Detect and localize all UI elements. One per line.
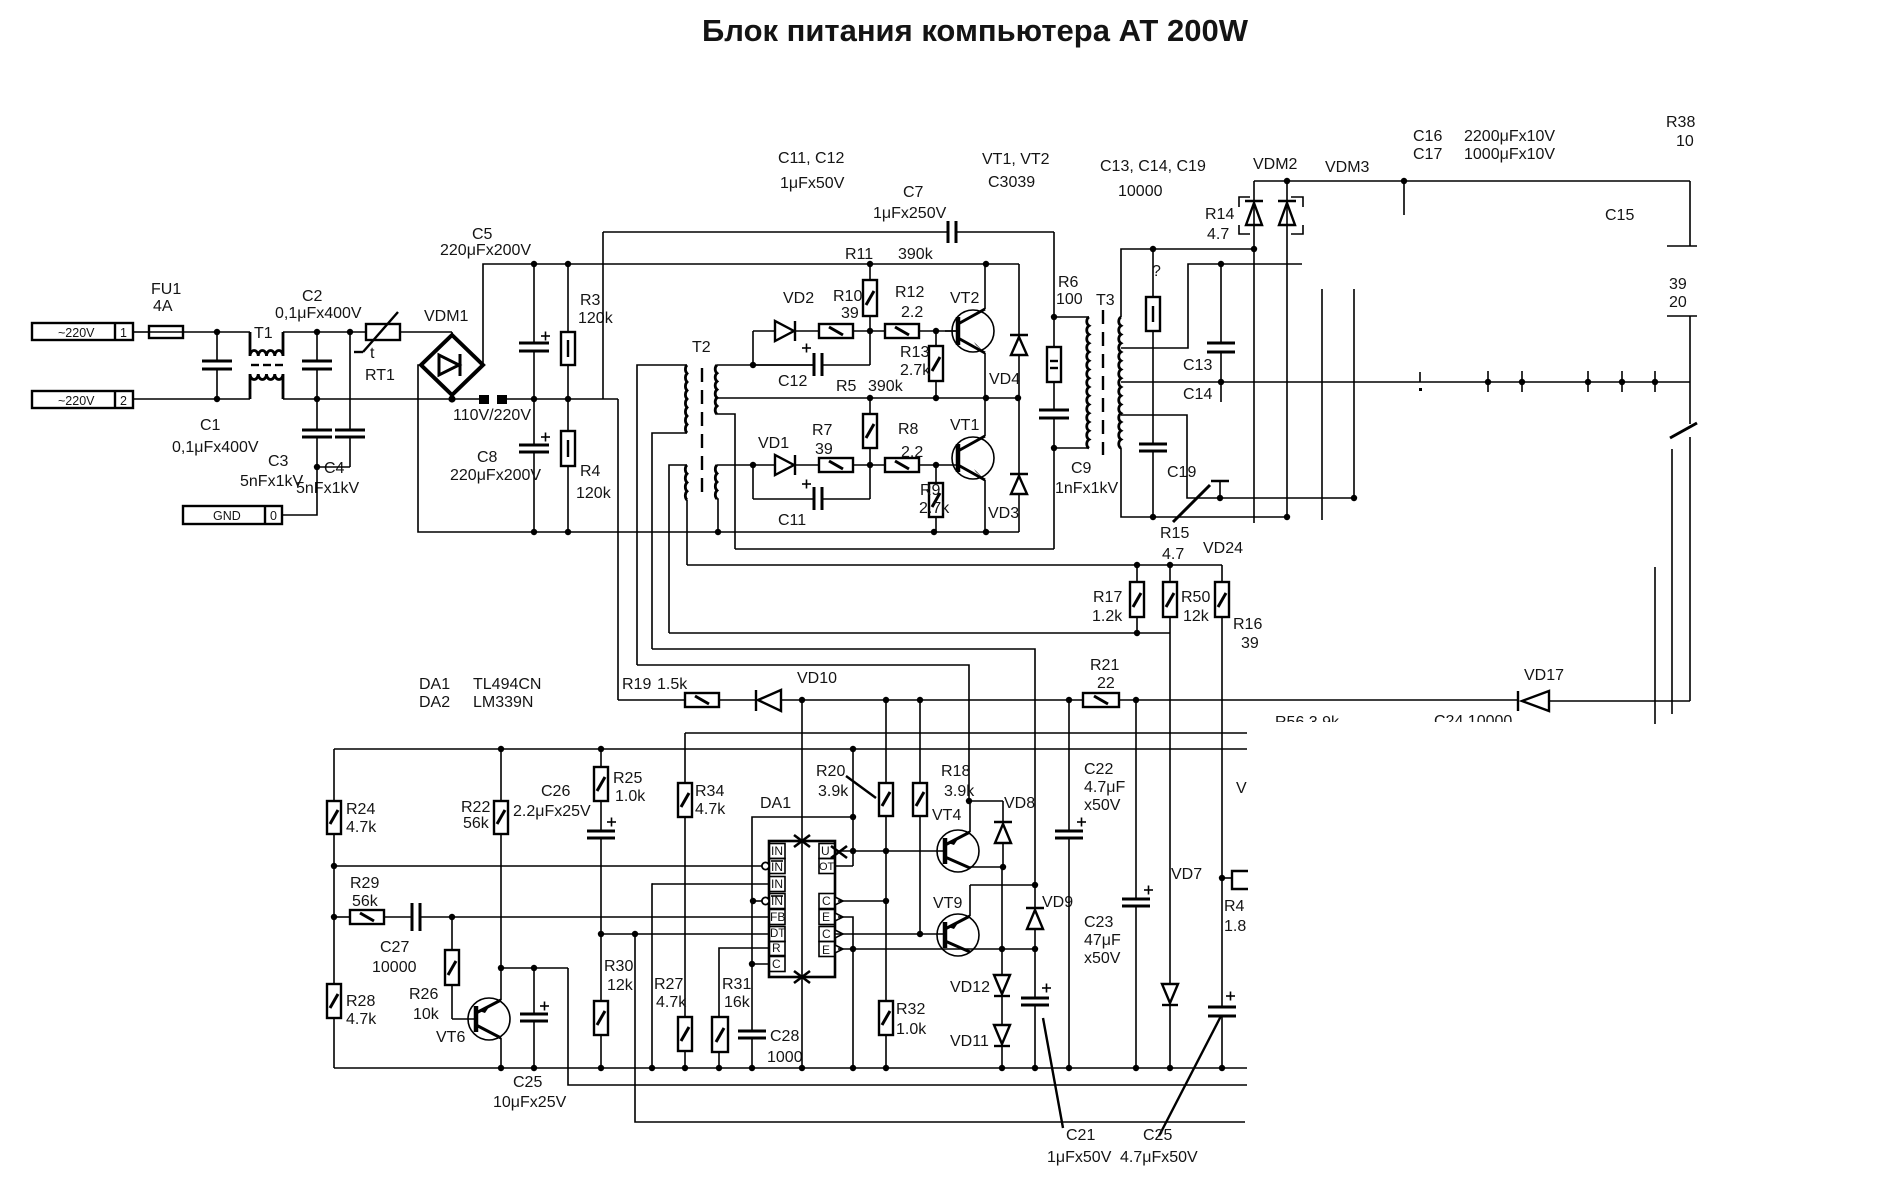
svg-text:1.5k: 1.5k <box>657 676 688 693</box>
wire T2 right g2 top to VD1 <box>717 464 775 466</box>
svg-text:C12: C12 <box>778 373 807 390</box>
svg-text:VDM3: VDM3 <box>1325 159 1370 176</box>
svg-text:IN: IN <box>771 877 783 891</box>
diode VD9 <box>1026 885 1073 949</box>
svg-text:16k: 16k <box>724 994 751 1011</box>
FB line with R29 C27 <box>334 916 350 918</box>
svg-text:R3: R3 <box>580 292 601 309</box>
svg-text:R5: R5 <box>836 378 857 395</box>
svg-text:R26: R26 <box>409 986 438 1003</box>
svg-text:VD12: VD12 <box>950 979 990 996</box>
capacitor C7 <box>873 184 1054 243</box>
svg-text:4.7k: 4.7k <box>656 994 687 1011</box>
svg-text:R6: R6 <box>1058 274 1079 291</box>
svg-text:C2: C2 <box>302 288 323 305</box>
svg-text:0,1μFx400V: 0,1μFx400V <box>172 439 259 456</box>
node C4 top <box>347 329 353 335</box>
resistor R3 <box>561 264 614 399</box>
capacitor C21 <box>1021 949 1051 1068</box>
svg-text:VT1: VT1 <box>950 417 979 434</box>
diode VD17 <box>1518 667 1564 711</box>
svg-text:1.8: 1.8 <box>1224 918 1246 935</box>
svg-text:C22: C22 <box>1084 761 1113 778</box>
svg-text:5nFx1kV: 5nFx1kV <box>240 473 303 490</box>
svg-text:C23: C23 <box>1084 914 1113 931</box>
DA1 right pin cells <box>819 844 835 957</box>
110V/220V selector contacts <box>453 395 531 424</box>
svg-text:2.7k: 2.7k <box>900 362 931 379</box>
resistor R4 <box>561 399 612 532</box>
node C2 bottom <box>314 396 320 402</box>
svg-text:C9: C9 <box>1071 460 1092 477</box>
resistor R8 <box>885 421 957 472</box>
svg-text:VDM2: VDM2 <box>1253 156 1298 173</box>
transformer T2 left winding group2 <box>685 465 687 500</box>
svg-text:R31: R31 <box>722 976 751 993</box>
R pin line <box>719 948 769 1017</box>
node C8 bottom on rail <box>531 529 537 535</box>
svg-text:VT9: VT9 <box>933 895 962 912</box>
svg-text:1: 1 <box>120 326 127 340</box>
resistor R11 <box>845 246 934 331</box>
transistor VT2 <box>945 264 994 398</box>
svg-text:1000: 1000 <box>767 1049 803 1066</box>
wire T2 left g2 bottom down to y565 line <box>686 500 688 565</box>
IC DA1 TL494 body <box>760 795 835 977</box>
resistor R26 <box>409 917 459 1023</box>
transformer T3 core <box>1102 310 1104 455</box>
svg-text:4.7: 4.7 <box>1207 226 1229 243</box>
svg-text:39: 39 <box>1669 276 1687 293</box>
svg-text:C21: C21 <box>1066 1127 1095 1144</box>
svg-text:T3: T3 <box>1096 292 1115 309</box>
svg-text:47μF: 47μF <box>1084 932 1121 949</box>
transformer T2 right winding group1 <box>715 365 717 414</box>
corner to 1085 line <box>568 968 1247 1085</box>
node R4 bottom on rail <box>565 529 571 535</box>
wire C3-C4 bottom join <box>317 466 350 468</box>
diode VD4 <box>989 264 1028 398</box>
svg-text:C19: C19 <box>1167 464 1196 481</box>
DT line left <box>601 933 769 935</box>
Uref line y749 <box>334 748 1247 750</box>
svg-text:OT: OT <box>819 861 835 873</box>
diode VD7 <box>1162 633 1202 1068</box>
resistor R24 <box>327 749 377 984</box>
svg-text:R7: R7 <box>812 422 833 439</box>
diode assembly VDM2 left diode <box>1245 181 1263 523</box>
svg-text:C8: C8 <box>477 449 498 466</box>
node C2 top <box>314 329 320 335</box>
resistor R18 <box>913 700 975 934</box>
E2 row / VT9 emitter line <box>838 948 1035 950</box>
svg-text:R29: R29 <box>350 875 379 892</box>
svg-text:VT6: VT6 <box>436 1029 465 1046</box>
svg-text:3.9k: 3.9k <box>818 783 849 800</box>
svg-text:10μFx25V: 10μFx25V <box>493 1094 567 1111</box>
resistor R5 <box>863 398 877 465</box>
svg-text:39: 39 <box>841 305 859 322</box>
svg-text:2.2: 2.2 <box>901 304 923 321</box>
svg-text:R15: R15 <box>1160 525 1189 542</box>
wire from pin1 to fuse <box>133 331 149 333</box>
DA1 emitter/collector pin arrows <box>835 897 843 953</box>
wire VD2 anode riser <box>752 331 754 365</box>
resistor R34 <box>678 733 726 1017</box>
svg-text:C5: C5 <box>472 226 493 243</box>
svg-text:390k: 390k <box>898 246 934 263</box>
output top rail y181 <box>1254 180 1690 182</box>
capacitor C22 <box>1055 700 1125 1068</box>
capacitor C27 <box>372 903 769 976</box>
DA1 x-marks <box>794 835 847 983</box>
svg-text:10: 10 <box>1676 133 1694 150</box>
svg-text:R34: R34 <box>695 783 724 800</box>
thermistor RT1 <box>354 312 400 384</box>
svg-text:1.0k: 1.0k <box>615 788 646 805</box>
resistor R10 <box>819 288 885 338</box>
svg-text:IN: IN <box>771 860 783 874</box>
svg-text:120k: 120k <box>576 485 612 502</box>
capacitor C2 <box>275 288 362 399</box>
x853 upper vertical <box>852 749 854 866</box>
IN2 line <box>334 865 762 867</box>
R20 column <box>816 700 893 1001</box>
svg-text:VD3: VD3 <box>988 505 1019 522</box>
tick marks on center line <box>1420 371 1655 392</box>
wire T3 secondary bottom to 517-line <box>1121 448 1287 517</box>
capacitor C19 <box>1139 444 1196 517</box>
capacitor C12 electrolytic <box>753 331 870 390</box>
svg-text:22: 22 <box>1097 675 1115 692</box>
IN3 riser x652 <box>652 884 653 1068</box>
svg-text:110V/220V: 110V/220V <box>453 407 531 424</box>
svg-text:VT1, VT2: VT1, VT2 <box>982 151 1050 168</box>
node at C1 bottom <box>214 396 220 402</box>
DT row right / VT9 base <box>835 933 944 935</box>
IN3 line <box>652 883 769 885</box>
diode VD1 <box>758 435 819 475</box>
svg-text:t: t <box>370 345 375 362</box>
wire RT1 to VDM1 <box>400 331 452 333</box>
wire T2 primary top to x636 <box>637 365 687 665</box>
wire x618 from mid rail down <box>617 399 619 700</box>
C21 pointer and label <box>1043 1018 1063 1128</box>
svg-text:R10: R10 <box>833 288 862 305</box>
svg-text:x50V: x50V <box>1084 950 1121 967</box>
node C5 bottom / C8 top <box>531 396 537 402</box>
svg-text:10000: 10000 <box>1118 183 1163 200</box>
resistor R30 <box>594 958 634 1068</box>
capacitor C3 <box>240 399 332 490</box>
svg-text:2.2: 2.2 <box>901 444 923 461</box>
node at C1 top <box>214 329 220 335</box>
capacitor C25 4.7uF cut <box>1208 992 1236 1069</box>
svg-text:C25: C25 <box>1143 1127 1172 1144</box>
bottom right cut verticals <box>1654 567 1656 724</box>
wire T1 to RT1 top line <box>283 331 366 333</box>
svg-text:VD7: VD7 <box>1171 866 1202 883</box>
resistor R25 <box>594 749 646 831</box>
main control line y700 with R19 VD10 R21 VD17 <box>618 699 685 701</box>
resistor R29 <box>350 875 384 924</box>
C pin wire first <box>838 900 886 902</box>
mid rail y398 right section <box>717 397 1019 399</box>
svg-text:C: C <box>822 927 831 941</box>
svg-text:?: ? <box>1152 263 1161 280</box>
svg-text:C11: C11 <box>778 512 806 529</box>
svg-text:~220V: ~220V <box>58 394 95 408</box>
fuse FU1 <box>149 281 183 338</box>
svg-text:120k: 120k <box>578 310 614 327</box>
svg-text:C28: C28 <box>770 1028 799 1045</box>
svg-text:V: V <box>1236 780 1247 797</box>
wire T2 left g2 top to x669 <box>669 465 687 633</box>
resistor R7 <box>812 422 885 472</box>
svg-text:R18: R18 <box>941 763 970 780</box>
node R3 top <box>565 261 571 267</box>
wire selector to C5/C8 node <box>503 398 618 400</box>
wire VDM1 left vertex down to bottom rail <box>418 365 1019 532</box>
capacitor C9 <box>1039 382 1118 549</box>
resistor R19 <box>622 676 719 707</box>
capacitor C1 <box>172 332 259 456</box>
center output line <box>1121 381 1690 383</box>
svg-text:VD8: VD8 <box>1004 795 1035 812</box>
svg-text:U: U <box>821 844 830 858</box>
resistor R14 <box>1146 206 1234 444</box>
svg-text:R30: R30 <box>604 958 633 975</box>
svg-text:C: C <box>772 957 781 971</box>
svg-text:VD10: VD10 <box>797 670 837 687</box>
svg-text:C26: C26 <box>541 783 570 800</box>
right edge column R39 <box>1667 181 1697 701</box>
connector X1 ~220V pin1 <box>32 323 133 340</box>
svg-text:R20: R20 <box>816 763 845 780</box>
IN4 stub <box>753 900 762 902</box>
resistor R16 <box>1215 565 1262 1007</box>
svg-text:R25: R25 <box>613 770 642 787</box>
svg-text:R19: R19 <box>622 676 651 693</box>
wire T3 tap1 to 264-line <box>1121 264 1302 348</box>
ground rail y1068 <box>334 1067 1247 1069</box>
transformer T2 right winding group2 <box>715 465 717 499</box>
svg-text:2.7k: 2.7k <box>919 500 950 517</box>
node R3 bottom / R4 top <box>565 396 571 402</box>
svg-text:C25: C25 <box>513 1074 542 1091</box>
svg-text:LM339N: LM339N <box>473 694 533 711</box>
wire T2 right g1 bottom step to y549 <box>717 414 735 549</box>
svg-text:100: 100 <box>1056 291 1083 308</box>
svg-text:1μFx250V: 1μFx250V <box>873 205 947 222</box>
svg-text:1000μFx10V: 1000μFx10V <box>1464 146 1555 163</box>
resistor R17 <box>1092 565 1144 633</box>
diode VD8 <box>994 795 1035 867</box>
svg-text:R28: R28 <box>346 993 375 1010</box>
svg-text:2.2μFx25V: 2.2μFx25V <box>513 803 591 820</box>
resistor R9 <box>919 465 950 532</box>
OT pin wire <box>835 865 853 867</box>
svg-text:0: 0 <box>270 509 277 523</box>
capacitor C5 electrolytic <box>440 226 550 399</box>
capacitor C13 <box>1183 264 1235 382</box>
svg-text:R50: R50 <box>1181 589 1210 606</box>
svg-text:12k: 12k <box>607 977 634 994</box>
VT9 collector row to VD9 <box>970 884 1035 886</box>
svg-text:VT4: VT4 <box>932 807 961 824</box>
svg-text:C7: C7 <box>903 184 924 201</box>
DT riser x635 to 1122 line <box>635 934 1245 1122</box>
svg-text:C27: C27 <box>380 939 409 956</box>
svg-text:R24: R24 <box>346 801 375 818</box>
svg-text:1μFx50V: 1μFx50V <box>1047 1149 1112 1166</box>
svg-text:39: 39 <box>815 441 833 458</box>
svg-text:C3039: C3039 <box>988 174 1035 191</box>
capacitor C4 <box>296 332 365 497</box>
svg-text:DA1: DA1 <box>419 676 450 693</box>
svg-text:C1: C1 <box>200 417 221 434</box>
svg-text:GND: GND <box>213 509 241 523</box>
diode VD2 <box>775 290 819 341</box>
transformer T3 secondary winding <box>1119 317 1121 448</box>
svg-text:VD1: VD1 <box>758 435 789 452</box>
wire GND to C3 node <box>282 467 317 515</box>
svg-text:T2: T2 <box>692 339 711 356</box>
svg-text:VT2: VT2 <box>950 290 979 307</box>
transformer T3 left winding <box>1087 317 1089 448</box>
svg-text:C3: C3 <box>268 453 289 470</box>
bridge rectifier VDM1 <box>421 308 483 395</box>
connector GND <box>183 506 282 524</box>
svg-text:R4: R4 <box>1224 898 1245 915</box>
svg-text:R38: R38 <box>1666 114 1695 131</box>
wire T2 primary g1 bottom to x652 <box>652 433 687 649</box>
svg-text:R: R <box>772 941 781 955</box>
capacitor C26 electrolytic <box>513 783 616 1001</box>
svg-text:R14: R14 <box>1205 206 1234 223</box>
svg-text:R11: R11 <box>845 246 873 263</box>
vertical through DA1 x802 <box>801 700 803 1068</box>
svg-text:C17: C17 <box>1413 146 1442 163</box>
svg-text:C: C <box>822 894 831 908</box>
transistor VT6 <box>436 968 510 1068</box>
wire T3 secondary top to VDM2 <box>1121 249 1254 317</box>
svg-text:C15: C15 <box>1605 207 1634 224</box>
svg-text:4.7k: 4.7k <box>346 1011 377 1028</box>
resistor R31 <box>712 976 751 1068</box>
svg-text:DA2: DA2 <box>419 694 450 711</box>
resistor R50 <box>1163 565 1210 633</box>
svg-text:56k: 56k <box>463 815 490 832</box>
wire VDM1 right vertex up to +310V rail <box>483 264 1019 365</box>
svg-text:C11, C12: C11, C12 <box>778 150 845 167</box>
connector X1 ~220V pin2 <box>32 391 133 408</box>
svg-text:E: E <box>822 910 830 924</box>
VT6 collector row y968 <box>501 967 568 969</box>
svg-text:390k: 390k <box>868 378 904 395</box>
resistor R21 <box>1083 657 1119 707</box>
wire T3 primary bottom <box>1054 447 1089 449</box>
svg-text:4A: 4A <box>153 298 173 315</box>
DA1 left pin cells <box>769 844 785 972</box>
svg-text:56k: 56k <box>352 893 379 910</box>
wire pin2 to T1 lower <box>133 398 250 400</box>
svg-text:FB: FB <box>770 910 785 924</box>
VD8 row <box>969 800 1003 802</box>
transformer T2 left winding group1 <box>685 365 687 433</box>
svg-text:R22: R22 <box>461 799 490 816</box>
svg-text:R32: R32 <box>896 1001 925 1018</box>
y633 line <box>669 632 1170 634</box>
svg-text:R4: R4 <box>580 463 601 480</box>
node C5 top <box>531 261 537 267</box>
svg-text:4.7k: 4.7k <box>695 801 726 818</box>
wire y549 line to snubber <box>735 548 1054 550</box>
C25 pointer and label <box>1159 1016 1221 1136</box>
svg-text:R12: R12 <box>895 284 924 301</box>
resistor R12 <box>885 284 957 338</box>
transformer T2 core <box>701 368 703 492</box>
wire T3 tap2 to 498-line <box>1121 415 1354 498</box>
svg-text:4.7: 4.7 <box>1162 546 1184 563</box>
transformer T1 common-mode choke <box>250 325 283 399</box>
Uref row right of DA1 <box>838 850 944 852</box>
node VDM1 bottom <box>448 395 455 402</box>
svg-text:VD2: VD2 <box>783 290 814 307</box>
diode VD10 <box>756 670 837 711</box>
svg-text:220μFx200V: 220μFx200V <box>450 467 541 484</box>
transistor VT1 <box>950 398 994 532</box>
capacitor C8 electrolytic <box>450 399 550 532</box>
resistor R43 cut <box>1219 871 1248 935</box>
svg-text:DA1: DA1 <box>760 795 791 812</box>
svg-text:R8: R8 <box>898 421 919 438</box>
capacitor C23 <box>1084 700 1153 1068</box>
svg-text:VD11: VD11 <box>950 1033 989 1050</box>
svg-text:5nFx1kV: 5nFx1kV <box>296 480 359 497</box>
resistor R13 <box>900 331 943 398</box>
svg-text:~220V: ~220V <box>58 326 95 340</box>
diode assembly VDM2 right diode <box>1278 181 1296 517</box>
svg-text:2200μFx10V: 2200μFx10V <box>1464 128 1555 145</box>
DA1 inversion bubbles <box>762 862 769 869</box>
svg-text:C13: C13 <box>1183 357 1212 374</box>
svg-text:TL494CN: TL494CN <box>473 676 541 693</box>
T2 lines to bottom: y565 line <box>687 564 1222 566</box>
svg-text:12k: 12k <box>1183 608 1210 625</box>
transistor VT4 <box>932 801 979 872</box>
svg-text:1μFx50V: 1μFx50V <box>780 175 845 192</box>
svg-text:2: 2 <box>120 394 127 408</box>
wire T2 right g2 bottom to rail <box>717 499 718 532</box>
capacitor C11 electrolytic <box>753 465 870 529</box>
feedback line y733 <box>685 732 1247 734</box>
svg-text:10k: 10k <box>413 1006 440 1023</box>
VDM3 stub <box>1403 181 1405 215</box>
svg-text:R17: R17 <box>1093 589 1122 606</box>
svg-text:4.7μF: 4.7μF <box>1084 779 1125 796</box>
svg-text:1.0k: 1.0k <box>896 1021 927 1038</box>
C pin route <box>752 817 853 964</box>
y665 line <box>637 665 969 801</box>
resistor R28 <box>327 984 377 1068</box>
capacitor C28 <box>738 964 803 1068</box>
E pin wire to ground riser <box>838 917 853 1068</box>
wire T1 to VDM1 bottom line <box>283 398 479 400</box>
wire fuse to T1 <box>183 331 250 333</box>
svg-text:4.7k: 4.7k <box>346 819 377 836</box>
svg-text:220μFx200V: 220μFx200V <box>440 242 531 259</box>
